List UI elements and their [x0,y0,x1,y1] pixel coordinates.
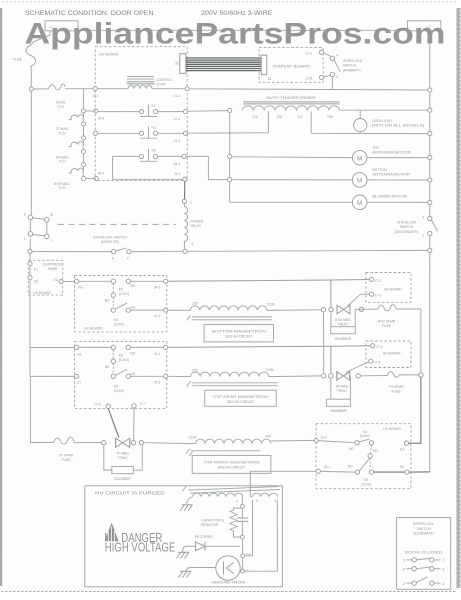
pin J7-2 [370,292,382,298]
wire J4-2 to BTM coil [168,309,191,311]
wire L2 right rail lower [429,236,431,472]
transformer T1 CONTROL XFMR secondary [127,77,173,87]
wire rail corner to E7 [30,375,74,378]
pin E2 [28,275,38,283]
node tco chain bottom [81,176,85,180]
wire TF triac to COM coil [144,442,196,445]
wire filament right leg to F [245,500,278,571]
wire J4-1 row to J7-5 [168,346,371,348]
wire FA to F [242,558,244,570]
pin J4-2 lower [154,374,168,384]
lamp OVEN LIGHT [354,110,425,133]
pin J8-3 [174,154,187,166]
wire secondary to HV terminal [241,497,243,505]
page border bottom dotted [1,591,456,593]
wire chain [83,154,85,163]
wire rail monitor to relay row [29,239,31,250]
wire filament left leg to FA [245,500,253,556]
wire COM link BTM to TR [323,312,325,374]
core HV transformer in purge box [182,486,280,493]
wire K2 row to tap 220 [188,132,269,134]
transformer T3 TF primary coil [189,434,271,443]
triac Q1 TF MAG TRIAC [116,438,130,460]
transformer T3 filament coil [252,493,277,497]
wire rail through suppressor [29,254,31,376]
snubber TF box [104,445,143,481]
wire K2 to E4 [374,471,405,473]
relay contact K5 lower [114,372,136,393]
box BOTTOM MAGNETRON [204,325,273,342]
wire junction to FA [241,539,243,554]
triac Q3 TR MAG TRIAC [335,372,350,393]
board U2 DISPLAY BOARD [259,48,323,83]
relay coil POWER RELAY [182,199,204,249]
pin E6 [75,345,82,356]
wire tco row to J1-1 [65,88,93,90]
transformer T5 TR primary coil [190,368,273,377]
box HV circuit purge enclosure [85,486,283,587]
wire top antenna motor to rail [367,157,428,159]
switch S4 relay row [111,248,131,260]
wire tap 220 drop [267,112,269,133]
pin J1-3 [174,87,190,99]
fuse BTM XFMR FUSE [364,305,396,328]
wire tap 120 drop [310,112,312,134]
node TR triac right [356,374,360,378]
wire K3 row step down to antenna row [186,156,227,179]
wire fuse to TF triac [74,442,102,444]
wire TF coil to pin J3-2 [271,439,314,442]
pin J8-4 [94,172,104,181]
switch S1 interlock primary [324,53,363,79]
relay armature K5/K4 common [105,284,127,313]
wire K3 left leg down to J2-1 row [113,156,183,179]
wire monitor linkage dashed [58,223,176,225]
pin J2-3 [174,131,188,143]
switch schematic row 2-4 open [403,577,445,586]
pin J4-3 [154,279,168,289]
relay contact K6 [111,345,136,362]
transformer T1 CONTROL XFMR primary coil [128,85,152,89]
wire J3-1 down to filament [250,471,316,497]
wire K5 to pin J4-3 [131,280,164,282]
wire BTM fuse to bus [396,309,421,373]
wire L1 to L2 top bus [78,29,408,31]
pin J4-2 [154,308,168,318]
wire J1-1 to control xfmr primary [97,88,128,90]
transformer T3 secondary coil [193,493,243,497]
pin J2-1 [174,172,187,181]
board U7 HV BOARD J7 lower [366,341,411,368]
thermostat TR MAG TCO [55,140,83,164]
node rail at relay row [428,248,432,252]
connector J6 [261,55,271,81]
svg-text:AppliancePartsPros.com: AppliancePartsPros.com [25,18,446,51]
node rectifier junction [241,535,245,539]
board U5 HV BOARD relay box lower [75,342,167,409]
wire transformer right to rail [341,109,428,111]
relay armature lower box [368,445,378,468]
wire chain to pin J8-5 [86,110,94,112]
label filament pins [236,499,276,504]
pin J1-5 display [306,75,324,80]
wire J4-3 branch down to BTM triac [330,280,332,307]
ground magnetron [179,568,192,578]
pin E3 [400,441,409,452]
wire top antenna motor row [232,156,353,159]
transformer T4 BTM primary coil [190,302,275,311]
wire BTM coil to COM node [267,309,322,312]
pin J3-1 [316,465,330,473]
wire TR fuse to bus node [400,374,419,376]
node auto transformer left [228,108,232,112]
page border top dotted [2,1,458,3]
wire K1 row to auto transformer [188,110,228,113]
pin J7-4 [369,359,381,365]
node TR triac left [329,374,333,378]
node TF triac right b [139,441,143,445]
switch S3 interlock monitor [24,212,127,244]
wire rail branch to E6 [30,347,74,349]
wire L1 drop to left rail [31,31,50,45]
wire J7-4 gate to TR triac [346,362,369,373]
box TOP FRONT MAGNETRON [192,455,271,473]
node BTM triac left [329,307,333,311]
wire L2 right rail upper [429,31,431,217]
thermostat OVEN TCO [49,84,66,109]
wire blower motor to rail [367,201,428,203]
connector J5 [175,54,186,74]
wire J1-3 to right rail [189,89,427,90]
wire K6 to pin J4-1b [131,346,164,348]
wire chain to pin J8-4 [86,178,95,180]
wire E3 to board J4-1 [63,280,74,282]
pin J1-1 display [306,50,324,55]
wire left feed column [229,113,231,155]
wire J2-1 to power relay [184,181,186,199]
node tco chain mid4 [81,162,85,166]
node tco chain mid3 [81,149,85,153]
wire bottom antenna motor row [232,179,353,181]
node relay coil bottom [183,249,187,253]
wire relay row segment 1 [32,251,111,253]
wire rail drop to TF fuse row [30,376,54,442]
node rail at top antenna row [428,156,432,160]
pin FA [241,553,251,558]
wire J4-2 lower to TR coil [168,375,191,377]
pin J4-1 [75,279,84,289]
node HV terminal [241,504,245,508]
node L1 terminal box [45,21,78,31]
wire relay row segment 2 [131,250,183,252]
pin K2 row left [93,131,97,135]
node rail at blower row [428,200,432,204]
board U3 suppressor module [28,260,62,295]
pin E1 [28,262,38,272]
node antenna feed top [228,154,232,158]
snubber TR box [326,376,350,413]
wire feed column lower [229,159,231,203]
node rail at primary row [428,88,432,92]
wire oven light row [311,132,428,134]
wire rail between monitor contacts [29,220,31,232]
box interlock switch schematic [397,518,451,590]
motor M1 TOP ANTENNA MOTOR [352,146,411,165]
ribbon cable J5 to J6 [186,58,261,71]
wire K4 to pin J4-2 [131,309,164,311]
wire K5 lower to pin J4-2b [131,375,164,377]
switch schematic row 3-1 closed [403,558,445,563]
node TR COM [322,374,326,378]
board U8 HV BOARD switch box [316,424,411,489]
relay contact K1 upper [349,430,374,451]
board U4 HV BOARD relay box upper [75,276,167,332]
fuse TF XFMR FUSE [54,437,74,462]
board U6 HV BOARD J7 upper [366,273,411,303]
node TF triac left [102,441,106,445]
node junction left rail / oven tco row [29,87,33,91]
page border left band [0,8,2,586]
diode D1 rectifier [185,535,241,551]
relay contact K1 [98,104,183,117]
wire E6 to K6 [79,346,111,348]
triac Q2 BTM MAG TRIAC [335,305,351,326]
node tco chain top [81,109,85,113]
wire chain [83,126,85,136]
node relay row left [28,249,32,253]
node fuse bus [419,373,423,377]
wire J4-1 branch down to TR triac [330,346,332,374]
switch S2 interlock secondary [395,215,438,237]
wire TR coil to COM node [269,375,322,378]
magnetron V1 [212,556,246,585]
wire J4-1 to K5 [79,280,111,282]
capacitor C1 [237,508,249,535]
node TF triac right a [131,441,135,445]
relay contact K2 lower [348,459,374,487]
ground secondary left [180,497,193,511]
wire fuse bus down to E3 [409,377,421,443]
relay contact K2 [98,126,184,139]
wire left rail upper [30,67,32,216]
relay contact K4 [114,306,136,327]
node rail at bottom antenna row [428,178,432,182]
node antenna feed bottom [228,178,232,182]
pin J7-5 [371,344,383,350]
node tco chain mid2 [81,136,85,140]
board U1 HV BOARD main [95,47,187,181]
wire relay row segment 3 [187,249,428,252]
transformer T2 AUTO TRANSFORMER [243,96,340,119]
snubber BTM box [331,309,364,341]
wire bottom antenna motor to rail [367,179,428,181]
wire J7-7 down to triac right [133,408,135,440]
pin J7-6 [94,403,111,409]
pin J2-4 [174,110,188,121]
pin J7-3 [370,277,382,283]
thermostat BTM MAG TCO [54,167,83,191]
wire J3-1 to K2 contact [320,470,355,473]
box TOP REAR MAGNETRON [205,390,277,406]
resistor R1 bleed [201,508,242,537]
node BTM triac right [359,307,363,311]
pin J7-7 [132,402,146,408]
logo danger triangle [105,523,119,541]
wire branch down to tco chain [83,89,85,109]
wire J4-3 row to J7-3 [168,280,370,282]
node rail at transformer row [428,108,432,112]
motor M2 BOTTOM ANTENNA MOTOR [352,168,410,187]
node tco chain mid1 [81,122,85,126]
wire J3-2 to K1 contact [318,441,354,443]
wire J7-6 gate to TF triac [108,408,119,437]
core TF transformer [186,449,260,456]
fuse TR XFMR FUSE [360,372,404,394]
node BTM COM [321,308,325,312]
pin J3-2 [314,435,327,442]
thermostat TF MAG TCO [56,113,84,135]
pin F [241,569,249,573]
wire J7-2 gate to BTM triac [348,294,370,306]
pin J8-5 [94,109,105,120]
wire primary to pin J1-3 [152,88,185,90]
pin J1-1 [92,87,99,99]
relay armature K6/K5 common [105,350,127,379]
fuse F1 on left rail [13,45,36,67]
page border right band [457,8,461,588]
wire oven tco row [33,88,48,90]
pin E7 [75,374,82,385]
core BTM transformer [187,315,272,320]
pin E3 suppressor out [54,278,64,283]
pin E4 [400,465,409,474]
switch schematic row 5-6 closed [403,567,445,572]
node rail at oven light row [428,132,432,136]
pin J4-1 lower [154,345,168,356]
wire blower motor row [230,201,353,203]
core TR transformer [187,381,278,386]
wire E4 to L2 rail [409,471,430,473]
relay contact K5 [111,279,136,296]
ground rectifier [177,546,190,558]
node L2 terminal box [408,21,441,31]
wire magnetron to ground [190,567,216,569]
relay contact K3 [113,149,182,162]
motor M3 BLOWER MOTOR [352,195,407,210]
wire contact 5 to rail wire [331,77,333,90]
